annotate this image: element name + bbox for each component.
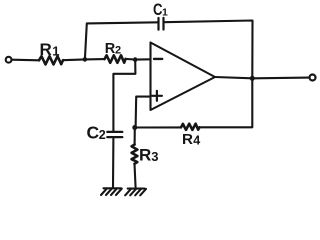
ground (R3 branch) [125,189,146,196]
non-inverting input '+' [152,95,162,97]
ground (C2 branch) [101,188,122,195]
wire non-inverting input to node C [136,97,151,128]
wire R4 to output node vertical [199,78,252,127]
wire output node to output terminal [252,77,309,80]
node A junction [83,57,88,62]
wire node C to R4 [135,126,181,128]
resistor R4 [181,124,200,149]
op-amp U1 [151,43,216,111]
resistor R3 [132,145,159,165]
svg-text:R: R [40,40,52,59]
svg-text:1: 1 [52,43,59,58]
wire node B to op-amp inverting input [135,58,150,60]
wire node A up to top rail [85,22,158,59]
node C junction [132,125,137,130]
svg-text:3: 3 [151,149,158,164]
wire R3 to ground [135,164,136,188]
wire node B down to C2 [113,60,135,132]
svg-text:C: C [87,123,100,143]
wire node A to R2 [85,58,105,60]
capacitor C2 [87,123,123,143]
wire op-amp output to output node [215,77,252,78]
output node junction [250,76,255,81]
capacitor C1 [153,1,168,29]
svg-text:2: 2 [99,128,106,142]
svg-text:2: 2 [115,44,121,56]
svg-text:R: R [139,146,151,165]
output terminal [310,75,316,81]
node B junction [133,57,138,62]
wire input terminal to R1 [12,59,39,62]
inverting input '-' [154,58,162,60]
input terminal [6,57,12,63]
svg-text:R: R [182,131,193,148]
wire C2 to ground [112,137,115,188]
wire C1 to output node (top rail right) [164,21,253,79]
wire R2 to node B [126,58,136,61]
resistor R1 [39,40,63,64]
svg-text:4: 4 [193,133,200,147]
svg-text:1: 1 [162,6,168,18]
resistor R2 [105,41,126,63]
wire R1 to node A [63,58,85,61]
wire node C to R3 [134,128,136,145]
